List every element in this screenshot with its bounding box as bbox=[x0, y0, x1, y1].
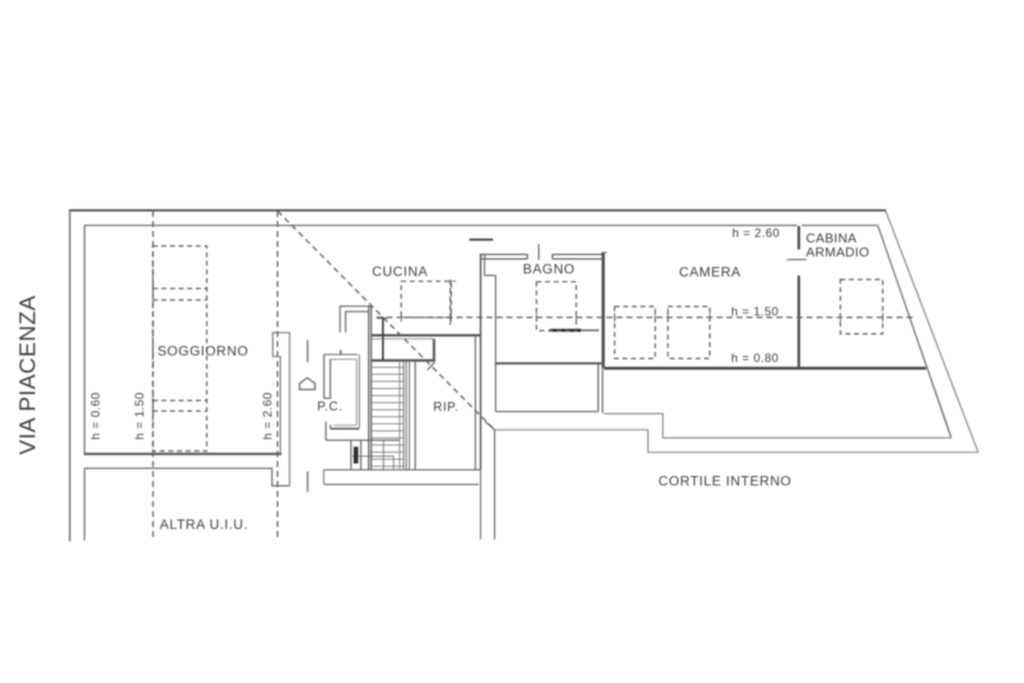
wall: corridor band bottom edge bbox=[324, 483, 479, 485]
wall: inner boundary top edge over cabina bbox=[802, 224, 878, 226]
wall: hook wall above pc inner bbox=[346, 312, 369, 333]
wall: inner boundary top edge bbox=[84, 224, 797, 226]
symbol: entrance arrow pentagon bbox=[300, 378, 316, 390]
wall: bagno right wall cap tick bbox=[602, 252, 608, 254]
stair landing top edge bbox=[372, 338, 435, 340]
wall: outer boundary left edge bbox=[69, 210, 71, 542]
dashed furniture box in cabina armadio bbox=[840, 280, 882, 334]
wall: outer boundary right slanted edge bbox=[886, 210, 979, 452]
svg-text:h = 0.60: h = 0.60 bbox=[89, 392, 103, 440]
svg-text:BAGNO: BAGNO bbox=[523, 262, 575, 277]
wall: cortile inner boundary stepped bbox=[604, 225, 951, 438]
wall: pc inner top line bbox=[330, 358, 356, 360]
wall: small room below bagno bottom edge bbox=[496, 411, 599, 413]
svg-text:h = 2.60: h = 2.60 bbox=[732, 226, 780, 240]
svg-text:ARMADIO: ARMADIO bbox=[806, 244, 869, 259]
wall: bagno left wall inner upper bbox=[484, 255, 486, 276]
bagno door tick bbox=[538, 244, 540, 260]
svg-text:P.C.: P.C. bbox=[317, 400, 343, 414]
wall: camera-cabina divider lower bbox=[797, 276, 800, 368]
stair landing bottom edge dark (top riser) bbox=[372, 359, 436, 362]
wall: inner boundary right slanted edge (cabina right wall) bbox=[878, 225, 951, 436]
wall: bagno top wall right segment (double band) bbox=[552, 254, 603, 259]
wall: hook wall above pc outer bbox=[340, 306, 372, 332]
stair treads bbox=[372, 367, 404, 466]
svg-text:h = 1.50: h = 1.50 bbox=[133, 392, 147, 440]
wall: long vertical bagno-rip outer wall bbox=[480, 254, 482, 470]
cabina door chord bbox=[787, 259, 807, 261]
wall: door stub upper right of soggiorno bbox=[307, 340, 309, 362]
svg-text:h = 1.50: h = 1.50 bbox=[731, 305, 779, 319]
wall: rip right wall inner bbox=[474, 336, 476, 470]
wall: under-stair closet top line bbox=[326, 439, 400, 441]
wall: thick wall over stair landing / rip top bbox=[372, 334, 481, 336]
door hinge tick on pc top wall bbox=[340, 350, 342, 355]
wall: altra uiu left edge bbox=[84, 468, 86, 540]
wall: outer boundary top edge bbox=[70, 209, 887, 211]
wall: altra uiu top edge bbox=[85, 468, 290, 486]
svg-text:h = 0.80: h = 0.80 bbox=[731, 351, 779, 365]
svg-text:CORTILE INTERNO: CORTILE INTERNO bbox=[658, 474, 791, 489]
flue mark above bagno bbox=[469, 239, 493, 241]
svg-text:SOGGIORNO: SOGGIORNO bbox=[157, 344, 248, 359]
wall: bagno bottom wall bbox=[496, 362, 604, 364]
wall: corridor band top edge bbox=[324, 469, 481, 471]
wall: pc bottom left bracket bbox=[326, 422, 331, 441]
under-stair partition vertical bbox=[383, 440, 385, 470]
wall: camera bottom thick wall bbox=[604, 367, 926, 370]
stair landing right edge dark bbox=[433, 339, 436, 362]
wall: bagno left wall step bbox=[485, 274, 496, 276]
svg-text:VIA PIACENZA: VIA PIACENZA bbox=[15, 295, 40, 455]
svg-text:h = 2.60: h = 2.60 bbox=[261, 392, 275, 440]
door swing tick at landing corner bbox=[427, 362, 435, 370]
dashed furniture box in cucina bbox=[401, 281, 451, 317]
wall: door stub lower right of soggiorno bbox=[307, 471, 309, 492]
wall: mitre diagonal at rip corner bbox=[485, 421, 495, 429]
dashed diagonal roof line bbox=[278, 211, 495, 430]
door jambs below stairs bbox=[350, 440, 352, 470]
wall: inner boundary left edge bbox=[84, 225, 86, 454]
wall: camera-cabina divider upper bbox=[797, 226, 800, 249]
wall stub: dark vertical in stairwell bbox=[382, 317, 384, 361]
wall: pc top wall bbox=[324, 354, 358, 356]
svg-text:CABINA: CABINA bbox=[806, 231, 857, 246]
stair stringer rails bbox=[399, 360, 401, 469]
dashed vertical opening mark left of bagno bbox=[449, 280, 451, 325]
wall: vertical at right of altra uiu bbox=[494, 430, 496, 540]
wall: pc bottom wall bbox=[331, 428, 360, 430]
door leaf dark blob bbox=[354, 447, 359, 464]
svg-text:ALTRA U.I.U.: ALTRA U.I.U. bbox=[160, 517, 248, 532]
wall: pillar between soggiorno and stair hall bbox=[273, 333, 290, 486]
cross ticks on height line bbox=[401, 313, 883, 322]
wall: pc left wall outer bbox=[324, 355, 330, 399]
dashed furniture box in bagno bbox=[537, 282, 577, 331]
wall: soggiorno bottom wall bbox=[84, 453, 281, 455]
tick on dashed opening mark bbox=[445, 280, 457, 282]
svg-text:RIP.: RIP. bbox=[433, 400, 459, 414]
wall: stairwell left wall double bbox=[368, 306, 370, 470]
wall: bagno-smallroom left wall inner bbox=[495, 275, 497, 411]
dashed section line vertical left bbox=[152, 211, 154, 541]
wall: thin continuation of bagno right wall bbox=[602, 368, 604, 414]
svg-text:CUCINA: CUCINA bbox=[372, 264, 428, 279]
wall: corridor band left cap bbox=[323, 470, 325, 485]
wall: pc right wall double bbox=[356, 359, 358, 425]
under-stair partition right vertical bbox=[393, 456, 395, 470]
tick crossing dark stub bbox=[377, 317, 388, 319]
dashed section line vertical mid bbox=[277, 211, 279, 541]
under-stair partition horizontal bbox=[352, 455, 394, 457]
wall: bagno right wall thick bbox=[602, 252, 605, 367]
solid segment on height line under cucina box bbox=[401, 316, 451, 318]
wall: cortile outer boundary stepped bbox=[495, 430, 979, 453]
dashed horizontal height line h150 bbox=[377, 316, 913, 318]
svg-text:CAMERA: CAMERA bbox=[679, 265, 741, 280]
dashed furniture column in soggiorno bbox=[153, 246, 207, 451]
wall: bagno top wall left segment (double band) bbox=[482, 254, 528, 259]
wall: rip left wall bbox=[414, 362, 416, 470]
dark fixture segment in bagno bbox=[550, 329, 581, 332]
dashed furniture box2 in camera bbox=[668, 307, 710, 359]
dashed furniture box1 in camera bbox=[615, 307, 656, 359]
wall: pc bottom wall inner thin bbox=[334, 424, 357, 426]
wall: small room below bagno right edge bbox=[597, 365, 599, 412]
